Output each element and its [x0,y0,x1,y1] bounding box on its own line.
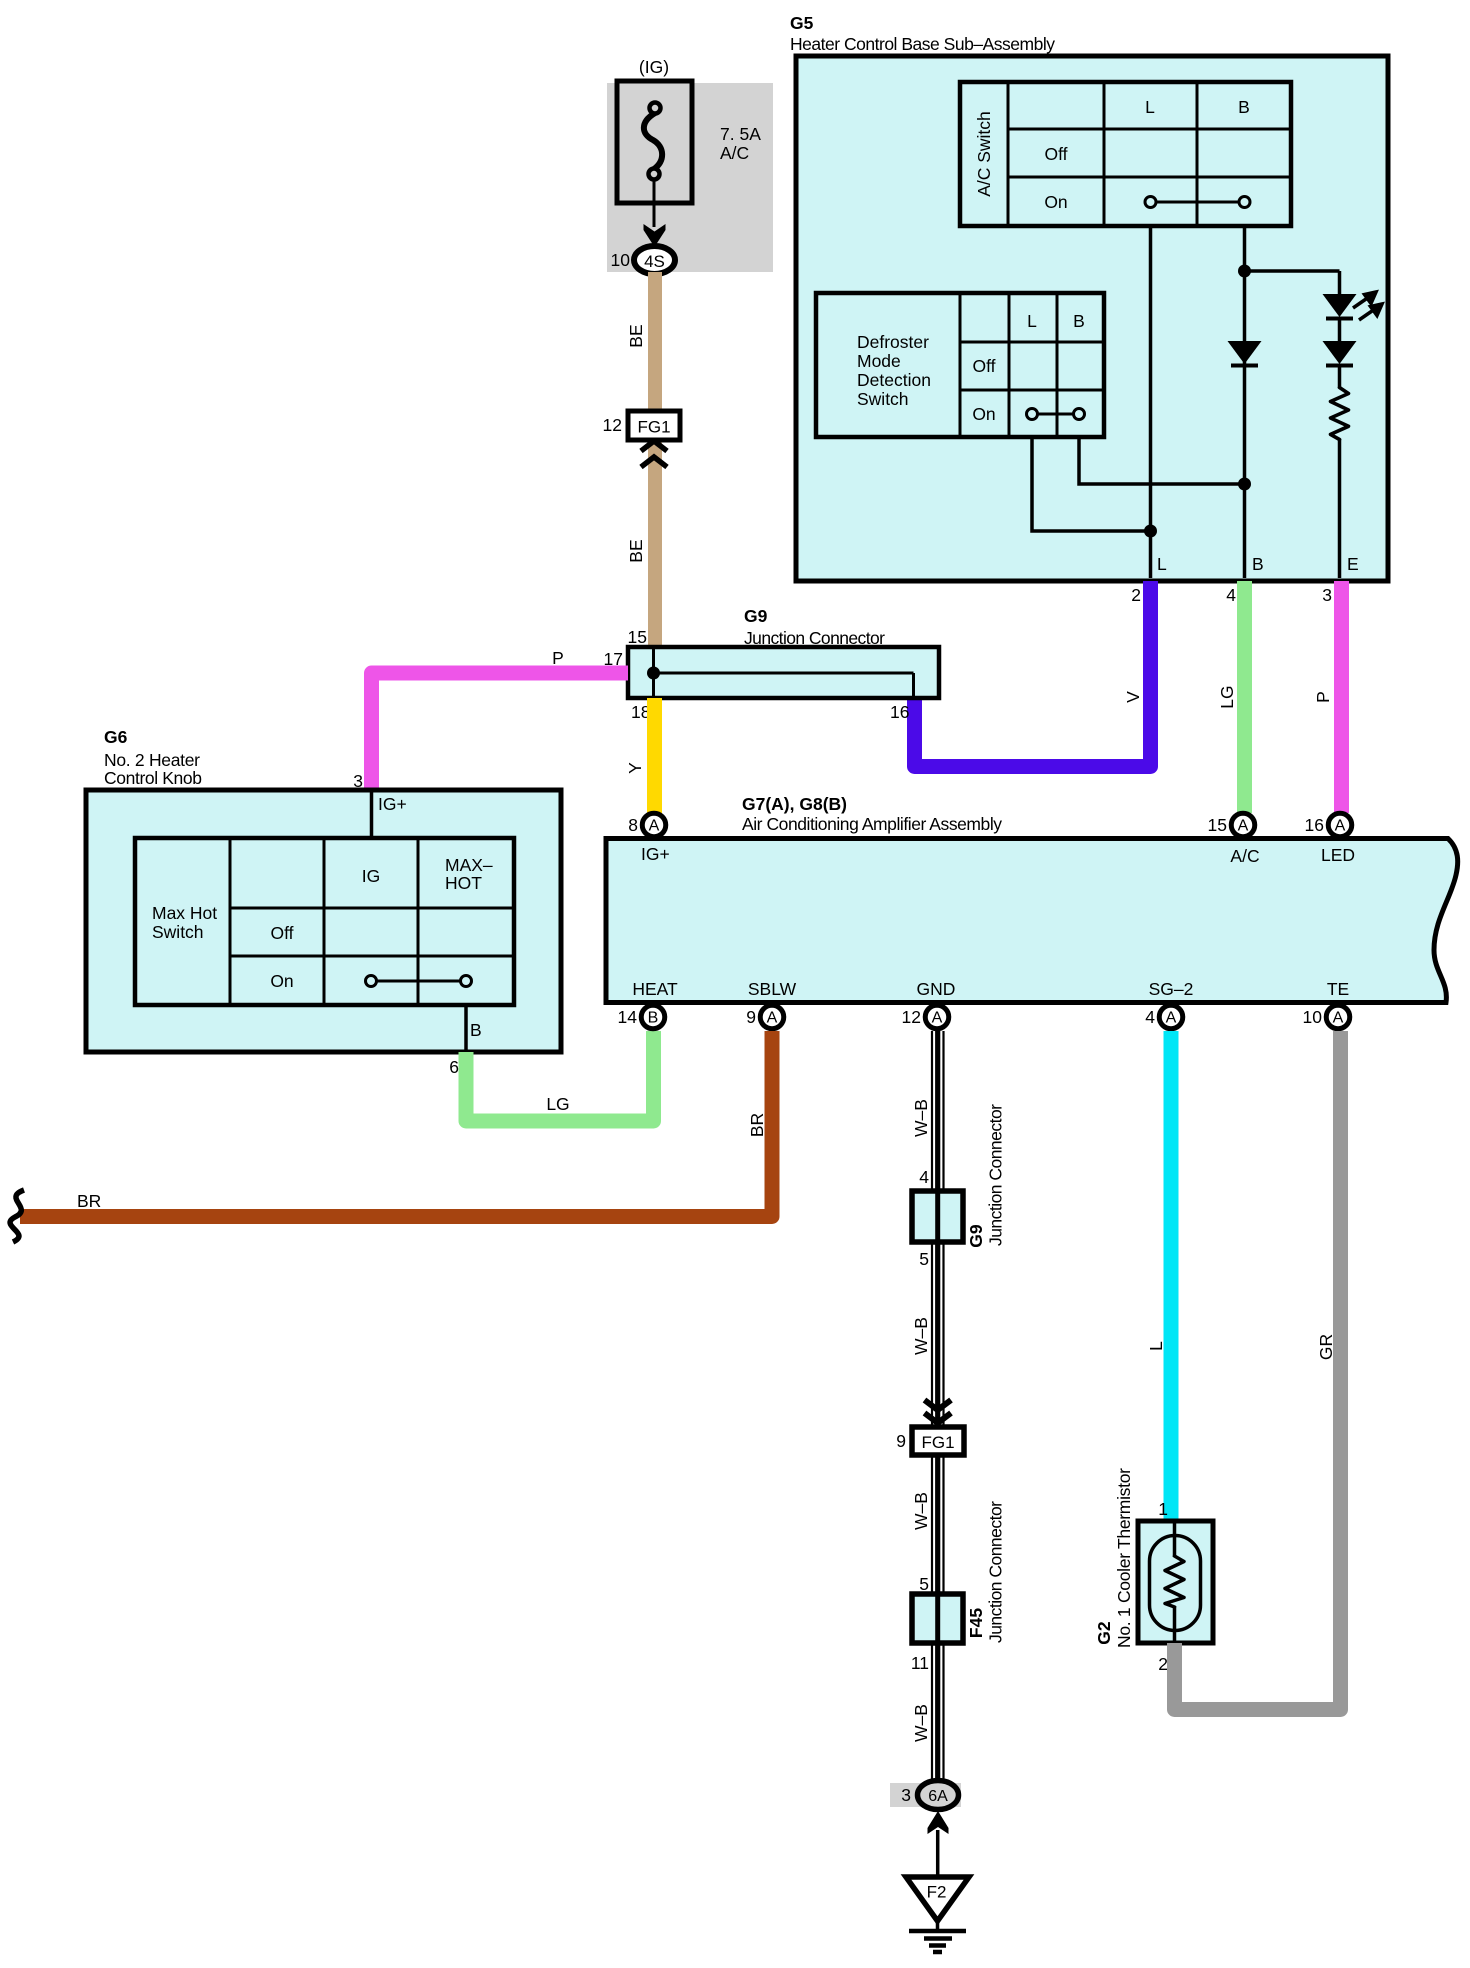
svg-text:F2: F2 [927,1883,947,1902]
diode D3 on B line [1228,341,1262,366]
ground hatch [909,1931,966,1952]
svg-text:On: On [1044,192,1067,212]
svg-text:16: 16 [890,702,909,722]
arrow up into 6A [928,1811,949,1834]
defroster mode detection switch table [816,293,1104,437]
svg-text:FG1: FG1 [921,1433,954,1452]
svg-text:4: 4 [1226,585,1236,605]
svg-text:W–B: W–B [911,1492,931,1530]
thermistor symbol [1150,1521,1201,1643]
svg-text:Detection: Detection [857,370,931,390]
svg-text:12: 12 [603,415,622,435]
svg-text:B: B [1238,97,1250,117]
connector 4S [634,246,675,274]
wire Y (yellow) G9 pin18 to amp pin8 [647,698,662,813]
svg-text:15: 15 [1208,815,1227,835]
svg-text:W–B: W–B [911,1704,931,1742]
svg-text:BR: BR [747,1113,767,1137]
pin 4 A [1145,1005,1182,1029]
svg-text:B: B [1073,311,1085,331]
svg-text:Junction Connector: Junction Connector [986,1501,1006,1643]
svg-text:Off: Off [270,923,293,943]
svg-text:SBLW: SBLW [748,979,797,999]
svg-text:Heater Control Base Sub–Assemb: Heater Control Base Sub–Assembly [790,34,1055,54]
svg-text:Junction Connector: Junction Connector [986,1104,1006,1246]
defroster table texts [857,311,1085,424]
svg-text:TE: TE [1327,979,1349,999]
svg-text:A/C: A/C [1230,846,1259,866]
internal wire to table [370,790,374,838]
junction connector G9 box [912,1191,963,1242]
svg-text:12: 12 [902,1007,921,1027]
pin 12 A [902,1005,949,1029]
G5 Heater Control Base Sub-Assembly box [796,56,1388,581]
wire W-B segment 1 [932,1031,944,1191]
svg-text:B: B [1252,554,1264,574]
svg-text:GND: GND [917,979,956,999]
svg-text:5: 5 [919,1249,929,1269]
svg-text:W–B: W–B [911,1317,931,1355]
svg-text:G2: G2 [1094,1621,1114,1645]
svg-text:On: On [972,404,995,424]
svg-text:Switch: Switch [152,922,204,942]
svg-text:Max Hot: Max Hot [152,903,217,923]
svg-text:G5: G5 [790,13,814,33]
G7(A) G8(B) Air Conditioning Amplifier Assembly box [606,839,1458,1003]
svg-text:B: B [470,1020,482,1040]
svg-text:11: 11 [911,1653,929,1673]
arrow into connector 4S [644,224,666,247]
wire BR amp pin9 to left [20,1031,772,1217]
svg-text:15: 15 [628,627,647,647]
pin names bottom [632,979,1349,999]
pin 8 A [628,813,665,837]
svg-text:A: A [767,1010,778,1027]
svg-text:HEAT: HEAT [632,979,678,999]
svg-text:A: A [1333,1010,1344,1027]
table texts [152,855,493,991]
svg-text:L: L [1145,97,1155,117]
internal wire B [464,1005,468,1052]
diode D2 (LED chain) [1323,341,1357,366]
wire break symbol [10,1190,24,1242]
G9 junction connector title [744,606,885,648]
svg-text:MAX–: MAX– [445,855,493,875]
resistor in LED chain [1331,388,1349,440]
connector 6A [918,1781,959,1810]
junction node [1238,265,1251,278]
svg-text:A: A [1335,818,1346,835]
svg-text:L: L [1157,554,1167,574]
svg-text:3: 3 [901,1785,911,1805]
svg-text:BR: BR [77,1191,101,1211]
svg-text:GR: GR [1316,1334,1336,1360]
pin 14 B [618,1005,665,1029]
fuse 7.5A A/C box [617,81,692,203]
svg-text:LG: LG [546,1094,569,1114]
defroster B wire [1079,437,1245,484]
junction node L [1144,525,1157,538]
wire LG G6 pin6 to amp pin14 [466,1031,654,1121]
svg-text:BE: BE [626,539,646,562]
value label 7.5A A/C [720,124,761,163]
A/C switch table [960,82,1291,226]
svg-text:IG: IG [362,866,380,886]
svg-text:Y: Y [625,762,645,774]
svg-text:Mode: Mode [857,351,901,371]
max hot switch table [135,838,514,1005]
chevrons below FG1 [641,441,667,467]
svg-text:SG–2: SG–2 [1149,979,1194,999]
svg-text:No. 2 Heater: No. 2 Heater [104,750,200,770]
ground lead [936,1830,940,1877]
svg-text:A: A [1166,1010,1177,1027]
G9 junction connector bar [628,647,939,698]
wire W-B segment 4 [932,1643,944,1781]
svg-text:10: 10 [611,250,631,270]
svg-text:L: L [1146,1341,1166,1351]
LED chain vertical [1338,271,1342,295]
svg-text:On: On [270,971,293,991]
shield connector FG1 (9) [912,1427,964,1455]
svg-text:F45: F45 [966,1608,986,1638]
junction connector F45 box [912,1594,963,1643]
wire LG G5 pin4 to amp pin15 [1237,581,1252,813]
chevrons above FG1 [925,1400,952,1423]
svg-text:4: 4 [1145,1007,1155,1027]
G6 title [104,727,202,788]
wire GR amp pin10 to G2 pin2 [1175,1031,1341,1710]
svg-text:IG+: IG+ [378,794,407,814]
branch to LED chain [1245,269,1340,273]
svg-text:Air Conditioning Amplifier Ass: Air Conditioning Amplifier Assembly [742,814,1002,834]
svg-text:B: B [648,1010,659,1027]
wire P (pink) G9 pin17 to G6 pin3 [372,673,629,790]
wire P G5 pin3 to amp pin16 [1334,581,1349,813]
svg-text:P: P [1313,691,1333,703]
pin 9 A [746,1005,783,1029]
fuse element symbol [644,103,662,228]
svg-text:4: 4 [919,1167,929,1187]
svg-text:LG: LG [1217,685,1237,708]
svg-text:BE: BE [626,324,646,347]
G6 No.2 Heater Control Knob box [86,790,561,1052]
wire BE vertical [648,272,662,647]
svg-text:A/C: A/C [720,143,749,163]
svg-text:6A: 6A [928,1788,948,1805]
LED D1 [1323,294,1357,319]
svg-text:A/C Switch: A/C Switch [974,111,994,197]
fuse block shading [607,83,773,272]
internal wire L column [1149,226,1153,578]
svg-text:Control Knob: Control Knob [104,768,202,788]
svg-text:Switch: Switch [857,389,909,409]
connector 6A shading [890,1783,961,1807]
pin names top [641,844,1355,866]
wire L (cyan) amp pin4 to G2 pin1 [1164,1031,1179,1519]
svg-text:FG1: FG1 [637,418,670,437]
svg-text:LED: LED [1321,845,1355,865]
svg-text:1: 1 [1158,1499,1168,1519]
svg-text:HOT: HOT [445,873,482,893]
svg-text:5: 5 [919,1574,929,1594]
G5 title [790,13,1055,54]
wire W-B segment 3 [932,1455,944,1594]
ground triangle F2 [906,1877,969,1921]
svg-text:G6: G6 [104,727,128,747]
svg-text:6: 6 [449,1057,459,1077]
svg-text:No. 1 Cooler Thermistor: No. 1 Cooler Thermistor [1114,1468,1134,1648]
svg-text:G9: G9 [744,606,768,626]
G7/G8 amplifier title [742,794,1002,834]
svg-text:P: P [552,648,564,668]
pin 16 A [1305,813,1352,837]
svg-text:G7(A), G8(B): G7(A), G8(B) [742,794,847,814]
svg-text:7. 5A: 7. 5A [720,124,761,144]
max hot switch contact [366,976,472,987]
svg-text:IG+: IG+ [641,844,670,864]
A/C switch contact [1145,197,1250,208]
svg-text:Off: Off [972,356,995,376]
svg-text:V: V [1123,691,1143,703]
svg-text:16: 16 [1305,815,1324,835]
svg-text:A: A [1238,818,1249,835]
svg-text:Defroster: Defroster [857,332,929,352]
svg-text:A: A [932,1010,943,1027]
svg-text:2: 2 [1158,1654,1168,1674]
wire V (violet) G5 pin2 to G9 pin16 [915,581,1151,767]
LED emission arrows [1353,292,1382,320]
pin 10 A [1303,1005,1350,1029]
svg-text:10: 10 [1303,1007,1323,1027]
wire W-B segment 2 [932,1242,944,1427]
svg-text:W–B: W–B [911,1099,931,1137]
defroster switch contact [1027,409,1085,420]
svg-text:A: A [649,818,660,835]
svg-text:G9: G9 [966,1224,986,1248]
table texts [1044,97,1250,212]
G2 No.1 Cooler Thermistor box [1138,1521,1213,1643]
svg-text:4S: 4S [644,252,665,271]
svg-text:E: E [1347,554,1359,574]
shield connector FG1 (12) [628,411,680,440]
svg-text:3: 3 [1322,585,1332,605]
ground stem [936,1921,940,1929]
svg-text:8: 8 [628,815,638,835]
svg-text:Off: Off [1044,144,1067,164]
svg-text:14: 14 [618,1007,638,1027]
junction node B [1238,478,1251,491]
svg-text:9: 9 [746,1007,756,1027]
svg-text:2: 2 [1131,585,1141,605]
pin 15 A [1208,813,1255,837]
svg-text:L: L [1027,311,1037,331]
defroster L wire [1032,437,1151,531]
svg-text:(IG): (IG) [639,57,669,77]
svg-text:9: 9 [896,1431,906,1451]
internal wire B column [1243,226,1247,578]
